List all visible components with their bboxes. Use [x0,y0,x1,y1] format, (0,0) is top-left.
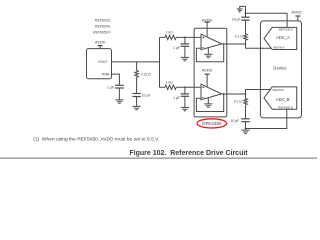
capacitor C4 1uF bottom [181,87,189,107]
ground (op-amp B V-) [204,98,212,108]
svg-text:1 kΩ: 1 kΩ [166,30,174,34]
capacitor C5 10uF top [241,6,249,20]
AVDD power symbol (op-amp B) [205,74,210,87]
wire VOUT output [112,61,160,63]
wire REFIN A [246,44,272,48]
wire REFGND A [246,13,288,27]
AVDD power symbol (REF chip) [98,46,103,49]
svg-text:REF5025,: REF5025, [95,19,111,23]
svg-text:REFIN B: REFIN B [272,88,283,92]
svg-text:1 µF: 1 µF [173,46,180,50]
wire bus to R4 bottom [160,86,165,88]
svg-text:AVDD: AVDD [291,10,302,15]
ground (C4) [181,107,189,110]
svg-text:1 µF: 1 µF [107,85,114,89]
svg-text:AVDD: AVDD [202,67,213,72]
ground (TRIM cap) [115,100,123,103]
feedback wire op-amp B [196,94,223,112]
junction REFGND B [245,128,247,130]
resistor R3 1k top [165,35,176,39]
wire input bus vertical [159,37,161,87]
wire TRIM to cap [112,74,120,85]
op-amp U2 OPA2350 box [194,28,227,117]
junction output A node [245,43,247,45]
AVDD power symbol (device) [295,16,300,21]
svg-text:REFIN A: REFIN A [273,45,284,49]
junction C4 [184,86,186,88]
svg-text:AVDD: AVDD [95,40,106,45]
ground (reference cap) [132,106,140,109]
wire bus to R3 top [160,36,165,38]
svg-text:10 µF: 10 µF [232,18,241,22]
ADC_B block [264,87,297,109]
output wire op-amp A [222,43,246,45]
svg-text:REF5040,: REF5040, [95,24,111,28]
svg-text:REF5050(1): REF5050(1) [93,30,111,34]
svg-text:1 µF: 1 µF [173,96,180,100]
wire REFIN B [246,90,271,95]
resistor R 0.22 ohm [135,71,139,78]
voltage reference U REF50xx box [87,49,112,79]
ground (op-amp A V-) [204,48,212,58]
capacitor C1 1uF (TRIM) [115,85,124,100]
wire VOUT branch down [136,62,138,71]
Device box [260,21,301,118]
output wire op-amp B [222,93,246,95]
plus sign op-amp B [202,86,204,97]
op-amp A triangle [201,34,222,50]
resistor R4 1k bottom [165,85,176,89]
svg-text:REFGND A: REFGND A [279,27,293,31]
minus sign op-amp A [202,47,204,49]
feedback wire op-amp A [196,44,223,62]
junction REFGND A [245,12,247,14]
capacitor C6 10uF bottom [241,119,249,129]
minus sign op-amp B [202,97,204,99]
svg-text:0.22 Ω: 0.22 Ω [141,73,152,77]
wire REFGND B [246,109,287,128]
svg-text:(1) When using the REF5050, A: (1) When using the REF5050, AVDD must be… [33,136,159,142]
junction C3 [184,37,186,39]
junction feedback A [223,43,225,45]
wire R4 to op-amp [176,86,201,88]
red ellipse OPA2350 [197,119,227,128]
capacitor C2 10uF (reference) [132,94,140,107]
op-amp B triangle [201,84,222,100]
svg-text:0.1 Ω: 0.1 Ω [235,34,244,38]
ground (C3) [181,57,189,60]
svg-text:ADC_A: ADC_A [276,35,290,40]
svg-text:1 kΩ: 1 kΩ [166,80,174,84]
wire R3 to op-amp [176,36,201,38]
plus sign op-amp A [202,36,204,47]
svg-text:Device: Device [273,66,287,71]
svg-text:Figure 102. Reference Drive C: Figure 102. Reference Drive Circuit [129,150,248,157]
svg-text:10 µF: 10 µF [142,94,151,98]
capacitor C3 1uF top [181,37,189,57]
svg-text:10 µF: 10 µF [230,119,239,123]
svg-text:VOUT: VOUT [98,60,107,64]
svg-text:ADC_B: ADC_B [276,97,290,102]
ADC_A block [264,27,297,49]
ground (C6) [241,129,249,134]
page edge band [0,157,317,159]
REF5025/REF5040/REF5050 label [93,19,111,35]
wire resistor to cap [136,77,138,93]
svg-text:0.1 Ω: 0.1 Ω [234,100,243,104]
resistor R6 0.1 ohm bottom [244,94,248,119]
ground (C5) [237,6,246,12]
svg-text:TRIM: TRIM [101,73,109,77]
resistor R5 0.1 ohm top [244,20,248,44]
AVDD power symbol (op-amp A) [205,22,210,37]
svg-text:OPA2350: OPA2350 [202,121,222,126]
svg-text:REFGND B: REFGND B [278,106,293,110]
junction output B node [245,93,247,95]
junction feedback B [223,93,225,95]
